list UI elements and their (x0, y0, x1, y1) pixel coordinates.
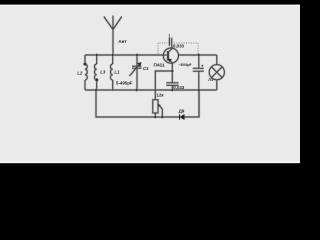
node C1 bottom (135, 89, 138, 92)
svg-text:Д9: Д9 (179, 108, 185, 113)
node C2 bottom rail (198, 89, 201, 92)
node C2 top (198, 54, 201, 57)
node wiper bottom (161, 116, 164, 119)
winding dot L3 (95, 78, 98, 81)
node resistor bottom (154, 116, 157, 119)
svg-text:Ант: Ант (118, 39, 127, 44)
svg-text:L2: L2 (77, 71, 83, 76)
svg-text:+: + (201, 64, 204, 69)
svg-text:~3000μF: ~3000μF (179, 62, 193, 67)
wire halo pass (85, 16, 224, 118)
variable cap arrowhead (137, 62, 141, 66)
svg-text:C1: C1 (143, 66, 149, 71)
wire core pass (85, 16, 224, 118)
svg-text:0,033: 0,033 (173, 85, 185, 90)
letterbox top (0, 0, 300, 5)
labels (77, 39, 213, 114)
node L2/L3 bottom (95, 89, 98, 92)
wiper arrowhead (158, 104, 160, 106)
letterbox bottom (0, 162, 300, 164)
transistor base bar (167, 51, 170, 61)
svg-text:12к: 12к (157, 92, 165, 97)
junction dots (83, 54, 200, 119)
svg-text:5-495pF: 5-495pF (116, 80, 133, 85)
svg-text:L1: L1 (114, 70, 120, 75)
transistor emitter arrow PNP (168, 59, 171, 62)
svg-text:Л1: Л1 (208, 78, 213, 82)
node cap bottom rail (171, 89, 174, 92)
node L1 bottom (112, 89, 114, 91)
capacitor 0.033 top stub (168, 34, 170, 38)
node C1 top (136, 54, 139, 57)
node antenna/L1 (111, 54, 114, 57)
svg-text:0,033: 0,033 (173, 44, 185, 49)
shield dashed box (158, 43, 198, 54)
winding dot L2 (83, 62, 86, 65)
node L3 top (95, 54, 98, 57)
node emitter (171, 70, 174, 73)
svg-text:П411: П411 (154, 62, 166, 67)
diode VD1 D9 (180, 114, 185, 120)
svg-text:L3: L3 (100, 70, 106, 75)
